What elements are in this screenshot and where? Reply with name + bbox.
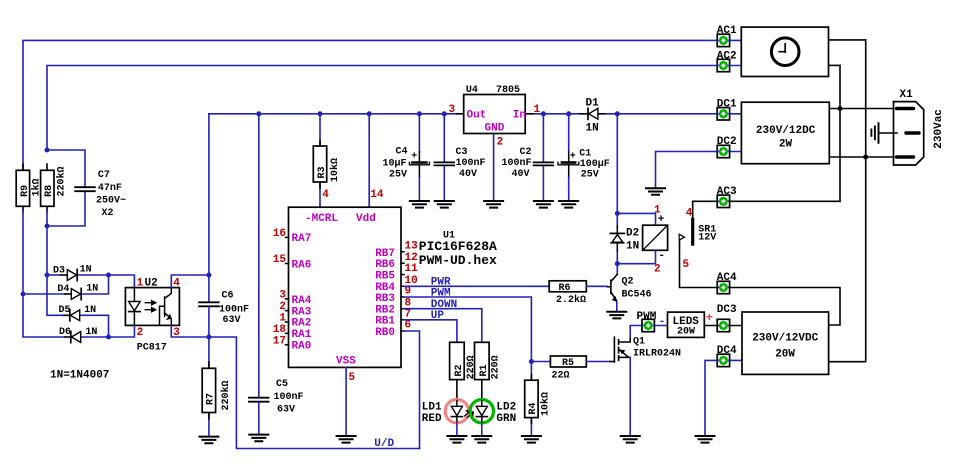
svg-text:40V: 40V — [512, 169, 530, 180]
svg-text:1: 1 — [654, 205, 661, 217]
svg-text:RA6: RA6 — [292, 259, 312, 271]
wire DC4 net — [705, 360, 742, 435]
svg-text:PIC16F628A: PIC16F628A — [419, 239, 497, 254]
relay coil K1 — [643, 205, 668, 276]
svg-text:GND: GND — [485, 123, 505, 135]
resistor R1 — [475, 342, 502, 379]
svg-text:220kΩ: 220kΩ — [220, 380, 232, 410]
wire D1 to DC1 — [606, 113, 742, 115]
svg-text:15: 15 — [273, 254, 287, 266]
resistor R5 — [550, 356, 586, 382]
wire clock bottom to lineA — [829, 64, 841, 66]
wire D3 row — [47, 274, 109, 276]
wire Q1 source to ground — [629, 357, 631, 435]
resistor R7 — [202, 337, 232, 435]
svg-text:D3: D3 — [53, 265, 65, 276]
svg-text:RB4: RB4 — [375, 282, 395, 294]
svg-text:16: 16 — [273, 228, 286, 240]
svg-text:22Ω: 22Ω — [552, 371, 570, 382]
svg-text:RED: RED — [422, 413, 442, 425]
wire C7 branch — [47, 150, 85, 226]
label AC1 — [717, 25, 737, 37]
svg-text:UP: UP — [431, 310, 445, 322]
wire VSS to ground — [345, 367, 347, 435]
wire U2 pin3 — [171, 325, 209, 337]
svg-text:AC4: AC4 — [717, 272, 737, 284]
ground LD2 — [472, 436, 491, 443]
capacitor C1 — [558, 114, 610, 200]
wire SR1 pin4 to AC3 — [693, 201, 718, 219]
clock module box — [741, 27, 828, 76]
svg-text:AC2: AC2 — [717, 50, 737, 62]
svg-text:R8: R8 — [44, 185, 55, 197]
wire net PWM — [404, 287, 531, 361]
ground R4 — [522, 436, 541, 443]
pad DC4 — [717, 354, 729, 366]
svg-text:GRN: GRN — [496, 413, 516, 425]
capacitor C6 — [199, 291, 249, 327]
capacitor C5 — [249, 379, 304, 416]
capacitor C3 — [435, 114, 486, 200]
svg-text:1: 1 — [137, 277, 144, 289]
svg-text:20W: 20W — [677, 327, 695, 338]
label AC4 — [717, 272, 737, 284]
svg-text:1: 1 — [534, 104, 541, 116]
svg-text:10kΩ: 10kΩ — [329, 158, 341, 182]
diode D3 — [53, 265, 92, 281]
wire C5 to ground — [258, 402, 260, 433]
wire D5 row — [47, 275, 109, 337]
svg-text:RA7: RA7 — [292, 233, 312, 245]
svg-text:R1: R1 — [479, 364, 490, 376]
svg-text:RB6: RB6 — [375, 259, 395, 271]
svg-text:AC3: AC3 — [717, 186, 737, 198]
svg-text:4: 4 — [173, 277, 180, 289]
svg-text:17: 17 — [273, 335, 286, 347]
svg-text:1N: 1N — [80, 265, 92, 276]
resistor R2 — [450, 342, 477, 379]
optocoupler U2 PC817 — [125, 277, 180, 353]
svg-text:1N: 1N — [84, 305, 96, 316]
pin number 4 MCRL — [322, 189, 329, 201]
svg-text:13: 13 — [405, 241, 419, 253]
resistor R3 — [313, 114, 341, 207]
svg-text:1N: 1N — [626, 240, 639, 252]
svg-text:R9: R9 — [20, 185, 31, 197]
svg-text:R6: R6 — [559, 283, 571, 294]
transistor Q2 — [607, 264, 651, 302]
wire AC line2 from top-left to AC2 — [47, 66, 741, 151]
label DC4 — [717, 345, 737, 357]
wire LEDS to DC3 — [704, 325, 742, 327]
pad DC3 — [717, 319, 729, 331]
transformer 230V/12VDC 20W — [742, 312, 829, 374]
svg-text:6: 6 — [405, 320, 412, 332]
svg-text:R5: R5 — [562, 358, 574, 369]
svg-text:BC546: BC546 — [622, 290, 652, 301]
svg-text:PC817: PC817 — [137, 343, 167, 354]
label DC2 — [717, 136, 737, 148]
svg-text:63V: 63V — [223, 315, 241, 326]
svg-text:230Vac: 230Vac — [933, 109, 945, 149]
pad AC3 — [717, 195, 729, 207]
wire Q1 drain to PWM pad and LEDS — [630, 326, 667, 338]
ground LD1 — [447, 436, 466, 443]
svg-text:2: 2 — [497, 137, 504, 149]
svg-text:100nF: 100nF — [502, 158, 532, 169]
svg-text:7: 7 — [405, 309, 412, 321]
svg-text:100nF: 100nF — [274, 392, 304, 403]
svg-text:18: 18 — [273, 324, 287, 336]
pad DC1 — [717, 108, 729, 120]
svg-text:RB7: RB7 — [375, 248, 395, 260]
svg-text:1N: 1N — [586, 123, 599, 135]
svg-text:VSS: VSS — [336, 356, 356, 368]
wire net RB0 to U/D — [404, 331, 420, 449]
svg-text:7805: 7805 — [496, 85, 520, 96]
wire U/D net — [209, 337, 420, 449]
svg-text:47nF: 47nF — [98, 183, 122, 194]
pad DC2 — [717, 145, 729, 157]
svg-text:R2: R2 — [454, 364, 465, 376]
svg-text:100nF: 100nF — [219, 305, 249, 316]
label DC3 — [717, 304, 737, 316]
connector X1 — [894, 89, 945, 165]
svg-text:R4: R4 — [528, 402, 539, 414]
svg-text:-MCRL: -MCRL — [305, 213, 338, 225]
svg-text:IRLR024N: IRLR024N — [633, 349, 681, 360]
capacitor C7 — [75, 170, 126, 219]
svg-text:RA0: RA0 — [292, 341, 312, 353]
svg-text:D2: D2 — [626, 228, 639, 240]
wire AC3 to lineA — [730, 200, 840, 202]
svg-text:1N: 1N — [85, 327, 97, 338]
pad AC4 — [717, 281, 729, 293]
svg-text:2W: 2W — [779, 139, 793, 151]
ground C4 — [410, 201, 429, 208]
diode D4 — [57, 284, 98, 300]
svg-text:-: - — [658, 250, 665, 262]
text 1N=1N4007 — [50, 370, 109, 382]
resistor R4 — [525, 362, 552, 436]
svg-text:D6: D6 — [59, 327, 71, 338]
svg-text:R3: R3 — [317, 166, 328, 178]
svg-text:40V: 40V — [459, 169, 477, 180]
svg-text:12: 12 — [405, 252, 418, 264]
svg-text:2.2kΩ: 2.2kΩ — [556, 294, 586, 306]
capacitor C2 — [502, 114, 554, 200]
svg-text:RB5: RB5 — [375, 271, 395, 283]
label plus DC3 — [706, 311, 713, 325]
svg-text:PWM: PWM — [637, 311, 657, 323]
svg-text:X1: X1 — [900, 89, 914, 101]
svg-text:DC3: DC3 — [717, 304, 737, 316]
pad PWM — [642, 319, 654, 331]
ground Q2 — [607, 312, 626, 319]
svg-text:2: 2 — [279, 301, 286, 313]
wire U4 GND — [493, 134, 495, 200]
wire C5 branch — [258, 114, 260, 397]
capacitor C4 — [383, 114, 430, 200]
svg-text:U/D: U/D — [374, 438, 394, 450]
svg-text:100µF: 100µF — [580, 159, 610, 170]
svg-text:3: 3 — [449, 104, 456, 116]
svg-text:Vdd: Vdd — [356, 213, 376, 225]
svg-text:25V: 25V — [581, 170, 599, 181]
wire DC2 net — [656, 152, 742, 188]
svg-text:4: 4 — [322, 189, 329, 201]
wire R8 down to D3 row — [46, 211, 48, 275]
svg-text:C6: C6 — [222, 291, 234, 302]
pin number 14 Vdd — [370, 189, 384, 201]
svg-text:2: 2 — [137, 327, 144, 339]
wire LD1 to ground — [456, 424, 458, 435]
svg-text:10kΩ: 10kΩ — [540, 392, 552, 416]
svg-text:25V: 25V — [389, 169, 407, 180]
ground Q1 — [621, 436, 640, 443]
wire D4 row — [23, 275, 109, 294]
wire net PWR — [404, 276, 550, 288]
IC U1 PIC16F628A — [273, 207, 497, 384]
svg-text:12V: 12V — [698, 233, 716, 244]
svg-text:63V: 63V — [277, 405, 295, 416]
svg-text:2: 2 — [654, 264, 661, 276]
svg-text:C5: C5 — [276, 379, 288, 390]
svg-text:230V/12DC: 230V/12DC — [756, 125, 816, 137]
ground C5 — [249, 435, 268, 442]
svg-text:100nF: 100nF — [456, 158, 486, 169]
earth ground X1 — [871, 123, 897, 143]
svg-text:In: In — [513, 110, 526, 122]
svg-text:1: 1 — [279, 313, 286, 325]
wire R9 down to D4 row — [22, 211, 24, 294]
wire PWM net to R5 — [531, 361, 550, 363]
ground VSS — [337, 436, 356, 443]
svg-text:RB0: RB0 — [375, 327, 395, 339]
ground C2 — [534, 201, 553, 208]
svg-text:D5: D5 — [59, 305, 71, 316]
svg-text:+: + — [706, 311, 713, 325]
svg-text:5: 5 — [349, 372, 356, 384]
svg-text:220kΩ: 220kΩ — [56, 166, 68, 196]
wire 12V branch down to D2 — [616, 114, 618, 264]
svg-text:X2: X2 — [102, 208, 114, 219]
wire net UP — [404, 310, 457, 342]
svg-text:DOWN: DOWN — [431, 299, 457, 311]
ground R7 — [199, 437, 218, 444]
resistor R8 — [41, 164, 68, 212]
svg-text:PWM-UD.hex: PWM-UD.hex — [419, 253, 497, 268]
wire AC4 to 20W box — [730, 288, 840, 326]
label AC3 — [717, 186, 737, 198]
relay contact SR1 — [679, 208, 716, 272]
svg-text:DC2: DC2 — [717, 136, 737, 148]
box LEDS 20W — [668, 312, 705, 337]
diode D2 — [610, 226, 639, 252]
diode D5 — [59, 305, 97, 321]
wire lineA vertical — [839, 65, 841, 201]
svg-text:DC1: DC1 — [717, 98, 737, 110]
resistor R6 — [549, 281, 586, 306]
wire Vdd — [368, 114, 370, 207]
svg-text:5: 5 — [683, 259, 690, 271]
svg-text:3: 3 — [279, 290, 286, 302]
wire AC line1 from top-left to AC1 — [23, 40, 741, 170]
diode D1 — [580, 98, 606, 135]
transformer 230V/12DC 2W — [741, 102, 829, 164]
svg-text:-: - — [659, 316, 666, 328]
svg-text:10µF: 10µF — [383, 158, 407, 169]
ground U4 — [484, 201, 503, 208]
ground C1 — [559, 201, 578, 208]
svg-text:LD1: LD1 — [422, 402, 442, 414]
svg-text:220Ω: 220Ω — [491, 355, 502, 379]
regulator U4 7805 — [449, 85, 541, 149]
label AC2 — [717, 50, 737, 62]
svg-text:4: 4 — [686, 208, 693, 220]
svg-text:RB3: RB3 — [375, 293, 395, 305]
svg-text:RA1: RA1 — [292, 329, 312, 341]
svg-text:20W: 20W — [775, 349, 795, 361]
wire C6 bottom to junction — [208, 307, 210, 337]
wire relay coil pin1 — [617, 213, 655, 225]
transistor Q1 MOSFET — [614, 337, 681, 363]
svg-text:C4: C4 — [396, 147, 408, 158]
svg-text:230V/12VDC: 230V/12VDC — [752, 333, 818, 345]
wire D6 row — [23, 294, 134, 337]
diode D6 — [59, 327, 97, 343]
wire LD2 to ground — [481, 424, 483, 435]
ground DC2 — [646, 188, 665, 195]
wire U2 pin1 — [109, 275, 135, 288]
svg-text:C3: C3 — [456, 147, 468, 158]
pad AC1 — [717, 34, 729, 46]
wire R6 to Q2 base — [586, 285, 607, 287]
label PWM pad — [637, 311, 657, 323]
label DC1 — [717, 98, 737, 110]
svg-text:Q2: Q2 — [622, 277, 634, 288]
ground DC4 — [696, 436, 715, 443]
LED LD1 RED — [422, 380, 474, 426]
svg-text:C7: C7 — [98, 170, 110, 181]
wire SR1 pin5 to AC4 — [680, 241, 718, 288]
resistor R9 — [16, 164, 42, 212]
wire net DOWN — [404, 299, 482, 342]
svg-text:RB1: RB1 — [375, 316, 395, 328]
svg-text:1N=1N4007: 1N=1N4007 — [50, 370, 109, 382]
wire R5 to Q1 gate — [586, 361, 614, 363]
wire 5V rail left leg down to C6 — [208, 114, 210, 302]
wire Q2 emitter to ground — [616, 302, 618, 311]
svg-text:+: + — [570, 152, 576, 163]
pad AC2 — [717, 59, 729, 71]
svg-text:Q1: Q1 — [633, 337, 645, 348]
LED LD2 GRN — [470, 380, 516, 426]
svg-text:R7: R7 — [206, 393, 217, 405]
net label U/D — [374, 438, 394, 450]
svg-text:14: 14 — [370, 189, 384, 201]
svg-text:AC1: AC1 — [717, 25, 737, 37]
svg-text:RA2: RA2 — [292, 318, 312, 330]
svg-text:DC4: DC4 — [717, 345, 737, 357]
svg-text:PWM: PWM — [431, 287, 451, 299]
svg-text:U2: U2 — [145, 277, 158, 289]
svg-text:11: 11 — [405, 263, 419, 275]
wire relay coil pin2 — [617, 250, 655, 263]
wire U2 pin4 to C6 rail — [171, 275, 209, 288]
svg-text:RA4: RA4 — [292, 295, 312, 307]
wire clock top to lineB — [829, 39, 866, 41]
wire 2W box to X1 pin1 — [829, 108, 897, 110]
svg-text:D1: D1 — [586, 98, 600, 110]
svg-text:Out: Out — [467, 110, 487, 122]
svg-text:9: 9 — [405, 286, 412, 298]
svg-text:C2: C2 — [520, 147, 532, 158]
svg-text:U4: U4 — [466, 85, 478, 96]
svg-text:RB2: RB2 — [375, 304, 395, 316]
svg-text:D4: D4 — [57, 284, 69, 295]
wire lineB vertical — [829, 40, 866, 362]
ground C3 — [435, 201, 454, 208]
label minus LEDS — [659, 316, 666, 328]
svg-text:+: + — [411, 152, 417, 163]
svg-text:250V~: 250V~ — [96, 195, 126, 206]
wire 5V rail — [209, 113, 580, 115]
wire 2W box to X1 pin3 — [829, 156, 897, 158]
svg-text:1N: 1N — [86, 284, 98, 295]
svg-text:LD2: LD2 — [496, 402, 516, 414]
